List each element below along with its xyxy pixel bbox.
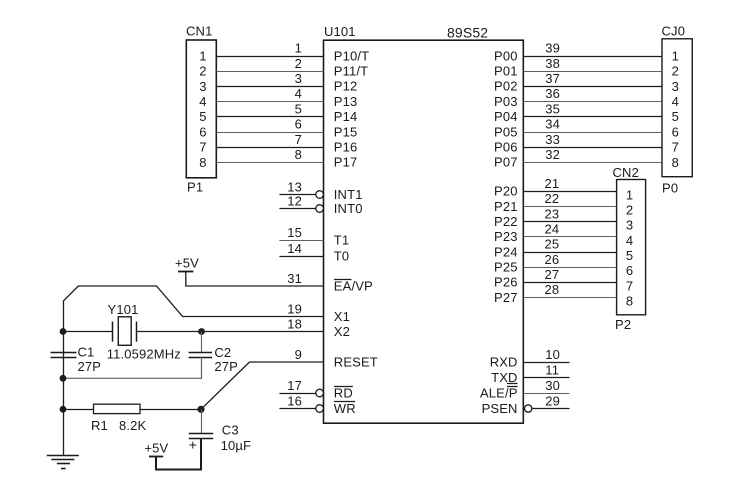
overbar EA (334, 279, 352, 281)
pin number 1 label (295, 41, 302, 56)
pin number 24 label (545, 221, 560, 236)
pin label P07 (494, 155, 518, 170)
label R1 value 8.2K (119, 418, 147, 433)
label P0 (662, 181, 678, 196)
wire CN1 pin 6 to U1 P15 (216, 132, 323, 134)
wire C3 top stem (201, 409, 203, 433)
svg-text:+: + (189, 437, 197, 453)
pin number 14 label (287, 241, 302, 256)
wire U1 P22 to CN2 pin 3 (523, 221, 616, 223)
junction dot rail-R1 (60, 406, 67, 413)
wire RESET pin 9 net (201, 362, 324, 409)
pin label P26 (494, 275, 518, 290)
pin label P04 (494, 109, 518, 124)
pin number 13 label (287, 179, 302, 194)
wire pin 10 stub (523, 362, 569, 364)
pin label RESET (334, 354, 378, 369)
label C2 (214, 345, 231, 360)
pin number 8 label (295, 147, 302, 162)
label C1 (78, 345, 95, 360)
pin number 22 label (545, 191, 560, 206)
pin number 25 label (545, 237, 560, 252)
label CJ0 (662, 23, 686, 38)
svg-text:2: 2 (626, 203, 633, 218)
svg-text:37: 37 (545, 71, 560, 86)
junction dot rail-X2 (60, 328, 67, 335)
svg-text:P00: P00 (494, 48, 518, 63)
pin number 19 label (287, 301, 302, 316)
svg-text:P17: P17 (334, 155, 358, 170)
ground symbol (47, 456, 79, 469)
resistor R1 body (94, 404, 141, 413)
label CN2 (613, 165, 639, 180)
svg-text:TXD: TXD (491, 370, 517, 385)
wire U1 P07 to CJ0 pin 8 (523, 162, 662, 164)
svg-text:17: 17 (287, 378, 302, 393)
pin label T1 (334, 232, 349, 247)
pin number 27 label (545, 267, 560, 282)
crystal Y101 label (108, 302, 139, 317)
svg-text:C2: C2 (214, 345, 231, 360)
CN2 pin number 8 (626, 294, 633, 309)
wire U1 P24 to CN2 pin 5 (523, 252, 616, 254)
power +5V label (EA) (175, 256, 199, 271)
op IC U1 MCU 89S52 body (324, 40, 524, 423)
svg-text:1: 1 (199, 48, 206, 63)
svg-text:26: 26 (545, 252, 560, 267)
pin label INT0 (334, 201, 363, 216)
svg-text:P05: P05 (494, 124, 518, 139)
inverter bubble pin 17 (316, 389, 324, 397)
svg-text:8: 8 (295, 147, 302, 162)
pin label P11/T (334, 64, 368, 79)
crystal Y101 right plate (136, 322, 138, 342)
CN2 pin number 6 (626, 263, 633, 278)
pin number 31 label (287, 271, 302, 286)
svg-text:P02: P02 (494, 79, 518, 94)
svg-text:X2: X2 (334, 324, 350, 339)
connector CJ0 body (662, 39, 692, 177)
CN1 pin number 6 (199, 124, 206, 139)
svg-text:EA/VP: EA/VP (334, 278, 373, 293)
junction dot R1-C3-RESET (197, 406, 204, 413)
wire U1 P03 to CJ0 pin 4 (523, 101, 662, 103)
wire C2 top stem (201, 332, 203, 353)
svg-text:2: 2 (199, 64, 206, 79)
svg-text:8: 8 (626, 294, 633, 309)
pin label P20 (494, 184, 518, 199)
pin number 34 label (545, 117, 560, 132)
CJ0 pin number 7 (672, 140, 679, 155)
pin number 15 label (287, 225, 302, 240)
svg-text:21: 21 (545, 176, 560, 191)
svg-text:28: 28 (545, 282, 560, 297)
pin label WR (334, 401, 356, 416)
overbar ALE/P P (507, 386, 518, 388)
pin label P23 (494, 229, 518, 244)
svg-text:3: 3 (672, 79, 679, 94)
CN2 pin number 3 (626, 218, 633, 233)
pin label P24 (494, 244, 518, 259)
wire crystal left to rail (63, 331, 113, 333)
wire CN1 pin 8 to U1 P17 (216, 162, 323, 164)
pin label P00 (494, 48, 518, 63)
svg-text:P21: P21 (494, 199, 518, 214)
wire pin 14 stub (279, 256, 323, 258)
CJ0 pin number 4 (672, 94, 679, 109)
svg-text:P04: P04 (494, 109, 518, 124)
svg-text:C1: C1 (78, 345, 95, 360)
pin label ALE/P (480, 385, 518, 400)
pin number 39 label (545, 41, 560, 56)
label C1 value 27P (78, 359, 102, 374)
svg-text:22: 22 (545, 191, 560, 206)
pin label P14 (334, 109, 358, 124)
svg-text:34: 34 (545, 117, 560, 132)
inverter bubble pin 16 (316, 405, 324, 413)
svg-text:Y101: Y101 (108, 302, 139, 317)
svg-text:24: 24 (545, 221, 560, 236)
svg-text:4: 4 (295, 86, 302, 101)
svg-text:P10/T: P10/T (334, 48, 369, 63)
wire C2 bottom to rail (63, 357, 202, 378)
svg-text:2: 2 (295, 56, 302, 71)
CJ0 pin number 1 (672, 48, 679, 63)
overbar WR (334, 401, 355, 403)
pin label P15 (334, 124, 358, 139)
wire CN1 pin 7 to U1 P16 (216, 147, 323, 149)
svg-text:31: 31 (287, 271, 302, 286)
svg-text:38: 38 (545, 56, 560, 71)
crystal Y101 body (118, 317, 131, 346)
pin number 37 label (545, 71, 560, 86)
CN2 pin number 4 (626, 233, 633, 248)
connector CN2 body (617, 180, 646, 315)
pin label P13 (334, 94, 358, 109)
svg-text:P22: P22 (494, 214, 518, 229)
svg-text:2: 2 (672, 64, 679, 79)
CJ0 pin number 3 (672, 79, 679, 94)
crystal value 11.0592MHz (107, 347, 181, 362)
svg-text:39: 39 (545, 41, 560, 56)
svg-text:3: 3 (295, 71, 302, 86)
label 89S52 (447, 24, 488, 40)
svg-text:4: 4 (199, 94, 206, 109)
svg-text:1: 1 (626, 187, 633, 202)
overbar RD (334, 386, 353, 388)
CN2 pin number 2 (626, 203, 633, 218)
pin label P25 (494, 260, 518, 275)
inverter bubble pin 29 (525, 405, 532, 412)
svg-text:P11/T: P11/T (334, 64, 368, 79)
pin number 2 label (295, 56, 302, 71)
pin number 28 label (545, 282, 560, 297)
svg-text:8: 8 (199, 155, 206, 170)
pin label P02 (494, 79, 518, 94)
svg-text:ALE/P: ALE/P (480, 385, 518, 400)
CN1 pin number 1 (199, 48, 206, 63)
svg-text:23: 23 (545, 206, 560, 221)
svg-text:3: 3 (626, 218, 633, 233)
svg-text:6: 6 (199, 124, 206, 139)
wire U1 P00 to CJ0 pin 1 (523, 56, 662, 58)
pin number 6 label (295, 117, 302, 132)
svg-text:15: 15 (287, 225, 302, 240)
CJ0 pin number 8 (672, 155, 679, 170)
junction dot C2-X2 (198, 328, 205, 335)
C3 polarity plus (189, 437, 197, 453)
CJ0 pin number 6 (672, 124, 679, 139)
wire U1 P21 to CN2 pin 2 (523, 206, 616, 208)
svg-text:RD: RD (334, 385, 353, 400)
svg-text:7: 7 (295, 132, 302, 147)
pin number 23 label (545, 206, 560, 221)
svg-text:T0: T0 (334, 248, 349, 263)
wire U1 P26 to CN2 pin 7 (523, 282, 616, 284)
svg-text:INT1: INT1 (334, 187, 363, 202)
pin label P27 (494, 290, 518, 305)
svg-text:36: 36 (545, 86, 560, 101)
svg-text:16: 16 (287, 393, 302, 408)
svg-text:P1: P1 (187, 180, 203, 195)
svg-text:4: 4 (626, 233, 633, 248)
svg-text:30: 30 (545, 378, 560, 393)
wire U1 P06 to CJ0 pin 7 (523, 147, 662, 149)
pin number 4 label (295, 86, 302, 101)
svg-text:1: 1 (295, 41, 302, 56)
CN2 pin number 5 (626, 248, 633, 263)
pin label P16 (334, 140, 358, 155)
label U101 (324, 24, 356, 39)
pin number 26 label (545, 252, 560, 267)
svg-text:CN1: CN1 (186, 24, 212, 39)
svg-text:29: 29 (545, 393, 560, 408)
svg-text:7: 7 (626, 278, 633, 293)
wire U1 P02 to CJ0 pin 3 (523, 86, 662, 88)
svg-text:5: 5 (199, 109, 206, 124)
svg-text:P12: P12 (334, 79, 358, 94)
pin number 18 label (287, 316, 302, 331)
label R1 (91, 418, 108, 433)
capacitor C2 top plate (189, 352, 213, 354)
wire U1 P25 to CN2 pin 6 (523, 267, 616, 269)
wire CN1 pin 2 to U1 P11 (216, 71, 323, 73)
pin label RD (334, 385, 353, 400)
pin label P06 (494, 140, 518, 155)
pin number 33 label (545, 132, 560, 147)
wire U1 P01 to CJ0 pin 2 (523, 71, 662, 73)
svg-text:7: 7 (672, 140, 679, 155)
wire pin 30 stub (523, 393, 569, 395)
svg-text:CN2: CN2 (613, 165, 639, 180)
wire U1 P05 to CJ0 pin 6 (523, 132, 662, 134)
pin label P21 (494, 199, 518, 214)
svg-text:6: 6 (295, 117, 302, 132)
capacitor C2 bottom plate (189, 357, 213, 359)
pin number 17 label (287, 378, 302, 393)
capacitor C3 bottom plate (189, 438, 213, 440)
CN2 pin number 1 (626, 187, 633, 202)
svg-text:14: 14 (287, 241, 302, 256)
pin number 30 label (545, 378, 560, 393)
svg-text:P23: P23 (494, 229, 518, 244)
svg-text:8: 8 (672, 155, 679, 170)
capacitor C3 top plate (189, 433, 213, 435)
wire pin 16 stub (279, 408, 315, 410)
svg-text:X1: X1 (334, 309, 350, 324)
wire U1 P04 to CJ0 pin 5 (523, 116, 662, 118)
svg-text:P24: P24 (494, 244, 518, 259)
wire U1 P23 to CN2 pin 4 (523, 236, 616, 238)
power +5V bar (EA) (178, 271, 193, 273)
svg-text:PSEN: PSEN (482, 401, 518, 416)
CN1 pin number 5 (199, 109, 206, 124)
capacitor C1 top plate (51, 352, 77, 354)
pin number 7 label (295, 132, 302, 147)
svg-text:P15: P15 (334, 124, 358, 139)
svg-text:RESET: RESET (334, 354, 378, 369)
svg-text:32: 32 (545, 147, 560, 162)
inverter bubble pin 12 (316, 205, 324, 213)
svg-text:6: 6 (672, 124, 679, 139)
pin label TXD (491, 370, 517, 385)
svg-text:RXD: RXD (490, 354, 518, 369)
pin number 10 label (545, 347, 560, 362)
label CN1 (186, 24, 212, 39)
pin number 5 label (295, 101, 302, 116)
pin label INT1 (334, 187, 363, 202)
svg-text:33: 33 (545, 132, 560, 147)
svg-text:35: 35 (545, 101, 560, 116)
svg-text:P27: P27 (494, 290, 518, 305)
pin label P01 (494, 64, 518, 79)
CN1 pin number 8 (199, 155, 206, 170)
svg-text:27P: 27P (214, 359, 238, 374)
svg-text:19: 19 (287, 301, 302, 316)
svg-text:P2: P2 (615, 317, 631, 332)
pin label EA/VP (334, 278, 373, 293)
svg-text:P06: P06 (494, 140, 518, 155)
pin number 38 label (545, 56, 560, 71)
wire +5V to EA/VP pin 31 (186, 271, 324, 286)
wire rail to R1 (63, 409, 94, 411)
svg-text:13: 13 (287, 179, 302, 194)
svg-text:9: 9 (295, 347, 302, 362)
pin number 12 label (287, 193, 302, 208)
wire CN1 pin 1 to U1 P10 (216, 56, 323, 58)
svg-text:+5V: +5V (144, 441, 168, 456)
wire pin 12 stub (279, 208, 315, 210)
CN1 pin number 3 (199, 79, 206, 94)
svg-text:5: 5 (295, 101, 302, 116)
CN2 pin number 7 (626, 278, 633, 293)
svg-text:8.2K: 8.2K (119, 418, 147, 433)
wire X1 pin 19 net (63, 286, 324, 317)
wire pin 11 stub (523, 377, 569, 379)
pin label PSEN (482, 401, 518, 416)
svg-text:P0: P0 (662, 181, 678, 196)
svg-text:P25: P25 (494, 260, 518, 275)
pin label P10/T (334, 48, 369, 63)
pin number 35 label (545, 101, 560, 116)
svg-text:3: 3 (199, 79, 206, 94)
svg-text:27: 27 (545, 267, 560, 282)
svg-text:P01: P01 (494, 64, 518, 79)
svg-text:7: 7 (199, 140, 206, 155)
svg-text:CJ0: CJ0 (662, 23, 686, 38)
svg-text:5: 5 (626, 248, 633, 263)
svg-text:U101: U101 (324, 24, 356, 39)
label C3 (222, 422, 239, 437)
svg-text:WR: WR (334, 401, 356, 416)
pin label P12 (334, 79, 358, 94)
svg-text:R1: R1 (91, 418, 108, 433)
svg-text:10: 10 (545, 347, 560, 362)
power +5V bar (C3) (149, 456, 163, 458)
svg-text:P16: P16 (334, 140, 358, 155)
pin label P22 (494, 214, 518, 229)
left rail wire (63, 301, 65, 455)
wire pin 15 stub (279, 240, 323, 242)
svg-text:P26: P26 (494, 275, 518, 290)
svg-text:P07: P07 (494, 155, 518, 170)
svg-text:10µF: 10µF (221, 438, 252, 453)
pin number 29 label (545, 393, 560, 408)
svg-text:11.0592MHz: 11.0592MHz (107, 347, 181, 362)
pin label RXD (490, 354, 518, 369)
wire CN1 pin 3 to U1 P12 (216, 86, 323, 88)
svg-text:1: 1 (672, 48, 679, 63)
pin label P03 (494, 94, 518, 109)
wire +5V to C3 bottom (156, 438, 201, 469)
pin label X1 (334, 309, 350, 324)
svg-text:27P: 27P (78, 359, 102, 374)
connector CN1 body (186, 40, 216, 178)
label C3 value 10uF (221, 438, 252, 453)
label C2 value 27P (214, 359, 238, 374)
inverter bubble pin 13 (316, 191, 324, 199)
svg-text:12: 12 (287, 193, 302, 208)
svg-text:P20: P20 (494, 184, 518, 199)
pin number 32 label (545, 147, 560, 162)
CJ0 pin number 2 (672, 64, 679, 79)
crystal Y101 left plate (112, 322, 114, 342)
CJ0 pin number 5 (672, 109, 679, 124)
pin number 21 label (545, 176, 560, 191)
svg-text:89S52: 89S52 (447, 24, 488, 40)
CN1 pin number 2 (199, 64, 206, 79)
svg-text:P03: P03 (494, 94, 518, 109)
wire pin 29 stub (532, 408, 570, 410)
svg-text:4: 4 (672, 94, 679, 109)
pin label X2 (334, 324, 350, 339)
wire U1 P27 to CN2 pin 8 (523, 297, 616, 299)
pin label P05 (494, 124, 518, 139)
wire pin 13 stub (279, 194, 315, 196)
svg-text:18: 18 (287, 316, 302, 331)
wire R1 to node (140, 409, 201, 411)
wire pin 17 stub (279, 393, 315, 395)
svg-text:C3: C3 (222, 422, 239, 437)
svg-text:11: 11 (545, 362, 559, 377)
pin number 3 label (295, 71, 302, 86)
power +5V label (C3) (144, 441, 168, 456)
svg-text:5: 5 (672, 109, 679, 124)
junction dot rail-C gnd (60, 375, 67, 382)
pin number 11 label (545, 362, 559, 377)
pin number 16 label (287, 393, 302, 408)
svg-text:P14: P14 (334, 109, 358, 124)
